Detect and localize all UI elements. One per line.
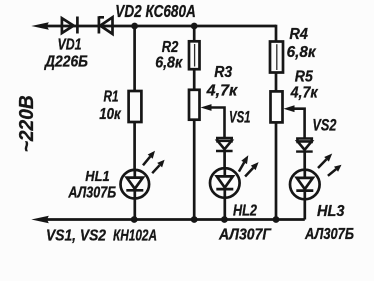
svg-text:R1: R1: [104, 88, 119, 105]
wire R3 to bottom rail: [193, 120, 196, 220]
node junction bottom C: [273, 216, 280, 223]
svg-text:4,7к: 4,7к: [290, 85, 319, 102]
wire VS1 to HL2: [223, 151, 226, 169]
svg-text:10к: 10к: [99, 106, 121, 123]
LED HL1 emission arrows: [143, 151, 165, 173]
LED HL3: [290, 170, 320, 200]
node junction bottom B2: [221, 216, 228, 223]
node junction bottom A: [131, 216, 138, 223]
LED HL2 emission arrows: [239, 155, 259, 176]
wire R1 to HL1: [133, 122, 136, 170]
svg-text:КН102А: КН102А: [113, 228, 157, 245]
wire column A upper: [133, 26, 136, 91]
wire bottom rail: [44, 218, 305, 221]
svg-text:Д226Б: Д226Б: [43, 54, 88, 71]
LED HL2: [210, 168, 240, 198]
resistor R4 inner line: [276, 44, 278, 70]
svg-text:4,7к: 4,7к: [206, 83, 238, 100]
resistor R4: [270, 42, 283, 73]
svg-text:R2: R2: [162, 39, 179, 56]
svg-text:VD1: VD1: [58, 37, 82, 54]
wire top rail corner down to R4: [275, 25, 278, 42]
svg-text:HL2: HL2: [233, 203, 257, 220]
wire column B upper: [193, 26, 196, 41]
wire VS2 to HL3: [303, 152, 306, 171]
node junction top B: [191, 23, 198, 30]
resistor R2: [189, 41, 200, 69]
wire top rail: [44, 25, 276, 28]
svg-text:R4: R4: [289, 26, 308, 43]
svg-text:VS2: VS2: [312, 116, 336, 135]
LED HL3 emission arrows: [318, 154, 342, 176]
resistor R1: [129, 91, 142, 122]
dinistor VS1: [216, 138, 233, 151]
variable resistor R3: [189, 90, 200, 120]
svg-text:6,8к: 6,8к: [155, 54, 183, 71]
node junction bottom B: [191, 216, 198, 223]
zener diode VD2: [99, 16, 113, 34]
dinistor VS2: [296, 139, 313, 152]
svg-text:HL1: HL1: [85, 168, 109, 185]
resistor R2 inner line: [194, 44, 196, 67]
svg-text:VS1, VS2: VS1, VS2: [46, 228, 106, 245]
wire R4 to R5: [275, 73, 278, 92]
svg-text:6,8к: 6,8к: [287, 44, 317, 61]
wire R2 to R3: [193, 69, 196, 90]
diode VD1: [62, 17, 78, 34]
svg-text:VD2 КС680А: VD2 КС680А: [115, 1, 196, 21]
wire R3 wiper to VS1: [207, 108, 225, 138]
arrow top-left mains: [31, 22, 49, 29]
wire HL1 to bottom rail: [133, 199, 136, 220]
svg-text:VS1: VS1: [229, 108, 251, 127]
variable resistor R5: [271, 91, 283, 122]
svg-text:АЛ307Б: АЛ307Б: [68, 185, 117, 202]
svg-text:АЛ307Г: АЛ307Г: [218, 227, 272, 244]
svg-text:R5: R5: [295, 69, 314, 86]
svg-text:HL3: HL3: [317, 203, 345, 220]
arrow bottom-left mains: [31, 216, 49, 223]
svg-text:~220В: ~220В: [16, 95, 38, 152]
LED HL1: [121, 170, 150, 199]
wire R5 wiper to VS2: [290, 109, 305, 138]
svg-text:АЛ307Б: АЛ307Б: [304, 226, 354, 243]
wire HL3 to bottom rail: [303, 199, 306, 220]
wire R5 to bottom rail: [275, 122, 278, 219]
svg-text:R3: R3: [214, 64, 232, 81]
wire HL2 to bottom rail: [223, 198, 226, 220]
node junction top A: [131, 23, 138, 30]
